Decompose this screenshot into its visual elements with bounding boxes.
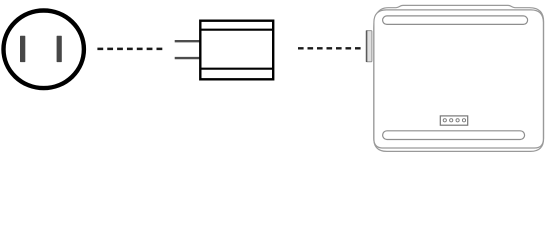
power port on device left edge — [366, 31, 372, 62]
connector pin 4 — [462, 119, 465, 122]
device top vent slot — [383, 16, 528, 25]
dashed wire adapter-to-device — [298, 47, 361, 49]
wall outlet face — [4, 11, 84, 89]
device bottom vent slot — [383, 131, 525, 140]
adapter seam bottom — [200, 68, 273, 70]
device top seam / inner outline — [374, 10, 544, 148]
connector pin 2 — [450, 119, 453, 122]
adapter prong bottom — [175, 57, 201, 59]
dashed wire outlet-to-adapter — [97, 48, 162, 51]
outlet slot right — [57, 36, 62, 62]
connector pin 1 — [443, 119, 446, 122]
power adapter body — [200, 21, 273, 80]
adapter prong top — [175, 40, 201, 42]
adapter seam top — [200, 29, 273, 31]
connector pin 3 — [456, 119, 459, 122]
4-pin connector housing — [440, 116, 467, 125]
device outer silhouette — [374, 5, 544, 151]
power port dark contact edge — [366, 30, 368, 62]
outlet slot left — [20, 36, 25, 62]
